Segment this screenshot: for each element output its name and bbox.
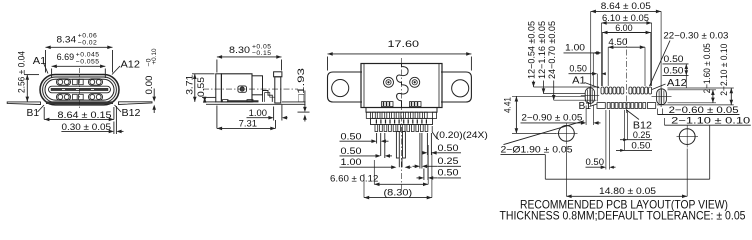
svg-text:12−0.54 ±0.05: 12−0.54 ±0.05 <box>527 21 537 79</box>
svg-text:(8.30): (8.30) <box>384 187 413 197</box>
pcb bottom outline <box>545 125 709 179</box>
dim 0.20 24X <box>432 126 488 140</box>
dim 4.50 pcb <box>608 37 645 86</box>
dim 2-1.60 vertical <box>668 43 717 103</box>
front view outer gasket shell <box>40 75 119 105</box>
svg-text:1.00: 1.00 <box>341 157 362 167</box>
pcb centerline <box>625 38 627 114</box>
side view through pin <box>274 72 282 103</box>
svg-text:0.50: 0.50 <box>664 54 684 64</box>
top view centerline <box>400 58 402 192</box>
dim 6.60 <box>330 145 428 186</box>
svg-text:0.50: 0.50 <box>438 168 459 178</box>
pcb left hole circle <box>556 123 578 145</box>
svg-text:B1: B1 <box>579 101 592 112</box>
note line 2 <box>500 209 746 223</box>
top view left rivet <box>384 77 394 87</box>
svg-text:B12: B12 <box>122 108 141 119</box>
dim 0.30 <box>61 106 123 134</box>
side view rear lower block <box>263 91 275 102</box>
svg-text:−0.055: −0.055 <box>76 58 100 65</box>
dim 6.10 pcb <box>602 13 652 86</box>
dim 12-0.54 vertical <box>527 21 599 87</box>
svg-text:6.69: 6.69 <box>57 52 75 62</box>
svg-text:0.50: 0.50 <box>631 141 650 151</box>
top view pin row 1 <box>366 112 436 118</box>
svg-text:8.64 ± 0.05: 8.64 ± 0.05 <box>601 1 651 11</box>
dim 22-0.30 <box>650 31 729 86</box>
label B12 pcb <box>627 110 653 131</box>
label A12 <box>112 60 140 75</box>
label A12 pcb <box>652 78 687 90</box>
svg-text:4.41: 4.41 <box>502 97 512 113</box>
svg-text:17.60: 17.60 <box>388 39 420 49</box>
svg-text:0.50: 0.50 <box>569 64 587 74</box>
label B12 <box>115 105 141 119</box>
svg-text:24−0.70 ±0.05: 24−0.70 ±0.05 <box>547 21 557 79</box>
top view right flange hole <box>452 80 469 97</box>
svg-text:8.64 ± 0.15: 8.64 ± 0.15 <box>58 110 112 120</box>
svg-text:2−Ø1.90 ± 0.05: 2−Ø1.90 ± 0.05 <box>501 145 573 155</box>
dim 2-2.10 vertical <box>657 44 734 105</box>
side view board lines <box>206 102 306 104</box>
svg-text:2.56 ± 0.04: 2.56 ± 0.04 <box>16 51 26 93</box>
dim 8.30 ref <box>364 152 432 199</box>
dim 24-0.70 vertical <box>547 21 596 100</box>
svg-text:14.80 ± 0.05: 14.80 ± 0.05 <box>599 186 656 196</box>
dim 1.00 view2 <box>247 105 288 121</box>
front view shell opening <box>45 79 114 100</box>
dim 14.80 <box>566 146 687 199</box>
dim 2.56 left <box>16 51 39 102</box>
svg-text:1.00: 1.00 <box>565 43 585 53</box>
svg-text:12−1.16 ±0.05: 12−1.16 ±0.05 <box>537 21 547 79</box>
dim 6.00 pcb <box>602 23 651 86</box>
dim 2-0.90 <box>521 106 601 126</box>
dim 8.30 +0.05 -0.15 <box>217 43 282 72</box>
dim 8.64 pcb <box>591 1 661 107</box>
dim 7.31 view2 <box>217 106 276 131</box>
pcb left oval hole <box>581 88 599 104</box>
side view smt feet <box>223 100 259 102</box>
svg-text:0.55: 0.55 <box>196 77 206 97</box>
svg-text:0.50: 0.50 <box>586 157 605 167</box>
dim 17.60 <box>328 39 472 71</box>
label B1 <box>27 105 45 119</box>
dim 0.55 left <box>196 77 216 103</box>
top view left vent pad <box>382 102 394 107</box>
svg-text:3.71: 3.71 <box>185 75 195 95</box>
dim 6.69 +0.045 -0.055 <box>52 52 106 78</box>
dim 0.00 right vertical <box>144 48 158 113</box>
dim 8.64 <box>44 107 114 121</box>
dim 1.00 v3 <box>340 157 412 169</box>
side view rear step <box>252 76 263 95</box>
dim 0.50 v3 first <box>340 132 389 156</box>
svg-text:8.30: 8.30 <box>229 45 250 55</box>
svg-text:0.30 ± 0.05: 0.30 ± 0.05 <box>62 122 112 132</box>
dim 3.71 left <box>185 74 215 102</box>
dim 0.50 v3 right2 <box>417 155 462 180</box>
dim 0.50 pcb mid <box>616 141 652 152</box>
label B1 pcb <box>579 101 598 112</box>
dim 0.50 pcb bottom <box>586 110 616 170</box>
svg-text:A12: A12 <box>667 78 687 89</box>
side view dimple <box>238 86 247 92</box>
svg-text:1.00: 1.00 <box>249 108 267 118</box>
top view left flange <box>328 72 363 102</box>
pcb pad row B <box>597 103 656 109</box>
svg-text:6.10 ± 0.05: 6.10 ± 0.05 <box>602 13 649 23</box>
front view top contact pills <box>57 79 103 85</box>
svg-text:2−1.10 ± 0.10: 2−1.10 ± 0.10 <box>671 115 750 125</box>
dim 2-1.10 <box>665 115 751 125</box>
dim 2-dia1.90 <box>501 121 585 155</box>
dim 12-1.16 vertical <box>537 21 585 94</box>
svg-text:0.25: 0.25 <box>633 130 651 140</box>
top view insulator band <box>371 118 433 124</box>
svg-text:A12: A12 <box>121 60 141 71</box>
top view body <box>361 64 442 108</box>
top view weld seam <box>397 64 409 108</box>
dim 0.50 pcb right1 <box>663 54 689 75</box>
svg-text:8.34: 8.34 <box>57 35 77 45</box>
pcb right hole circle <box>677 126 699 148</box>
svg-text:22−0.30 ± 0.03: 22−0.30 ± 0.03 <box>663 31 728 41</box>
svg-text:6.60 ± 0.12: 6.60 ± 0.12 <box>330 173 378 183</box>
dim 0.50 pcb left <box>569 64 606 102</box>
pcb pad row A <box>601 87 652 94</box>
side view front lip <box>216 74 222 102</box>
pcb right oval hole <box>652 89 672 105</box>
svg-text:2−0.90 ± 0.05: 2−0.90 ± 0.05 <box>521 113 582 123</box>
dim 0.25 v3 <box>413 133 462 169</box>
dim 0.50 v3 second <box>340 133 393 158</box>
svg-text:7.31: 7.31 <box>239 118 257 128</box>
top view right rivet <box>410 77 420 87</box>
dim 1.00 pcb <box>564 43 602 86</box>
dim 0.50 pcb right2 <box>663 66 689 88</box>
label A1 <box>33 56 48 73</box>
front view right mounting tab <box>119 102 153 105</box>
svg-text:(0.20)(24X): (0.20)(24X) <box>436 130 488 140</box>
svg-text:−0: −0 <box>145 58 152 66</box>
note line 1 <box>520 198 728 212</box>
front view bottom seal band <box>46 101 113 104</box>
svg-text:2−1.60 ± 0.05: 2−1.60 ± 0.05 <box>702 43 712 93</box>
svg-text:0.50: 0.50 <box>341 132 362 142</box>
top view right flange <box>441 72 471 102</box>
svg-text:4.50: 4.50 <box>608 37 627 47</box>
side view main body <box>221 74 252 102</box>
front view bottom contact pills <box>57 94 103 100</box>
top view shield legs <box>396 132 405 159</box>
svg-text:6.00: 6.00 <box>615 23 633 33</box>
svg-text:0.50: 0.50 <box>664 66 684 76</box>
top view right vent pad <box>410 102 422 107</box>
svg-text:0.50: 0.50 <box>341 146 362 156</box>
svg-text:THICKNESS 0.8MM;DEFAULT TOLERA: THICKNESS 0.8MM;DEFAULT TOLERANCE: ± 0.0… <box>500 209 746 223</box>
svg-text:0.00: 0.00 <box>144 76 154 95</box>
front view left mounting tab <box>7 102 40 105</box>
front view centerline <box>79 68 81 110</box>
dim 2-0.60 <box>658 105 740 115</box>
top view pin row 2 <box>375 125 428 132</box>
svg-text:2−0.60 ± 0.05: 2−0.60 ± 0.05 <box>669 105 739 115</box>
svg-text:B1: B1 <box>27 108 40 119</box>
svg-text:−0.02: −0.02 <box>78 40 97 47</box>
dim 0.50 v3 right1 <box>422 133 462 155</box>
dim 4.41 vertical <box>502 96 585 133</box>
svg-text:0.50: 0.50 <box>438 143 459 153</box>
dim 0.25 pcb <box>620 110 652 150</box>
dim 1.93 right vertical <box>296 68 309 122</box>
svg-text:0.25: 0.25 <box>438 156 459 166</box>
top view left flange hole <box>332 80 349 97</box>
front view tongue <box>49 86 111 93</box>
top view shell step <box>366 108 437 113</box>
svg-text:A1: A1 <box>572 76 586 87</box>
dim 8.34 +0.06 -0.02 <box>46 33 113 73</box>
svg-text:−0.15: −0.15 <box>252 50 271 57</box>
side view centerline <box>203 88 298 90</box>
label A1 pcb <box>572 76 599 88</box>
